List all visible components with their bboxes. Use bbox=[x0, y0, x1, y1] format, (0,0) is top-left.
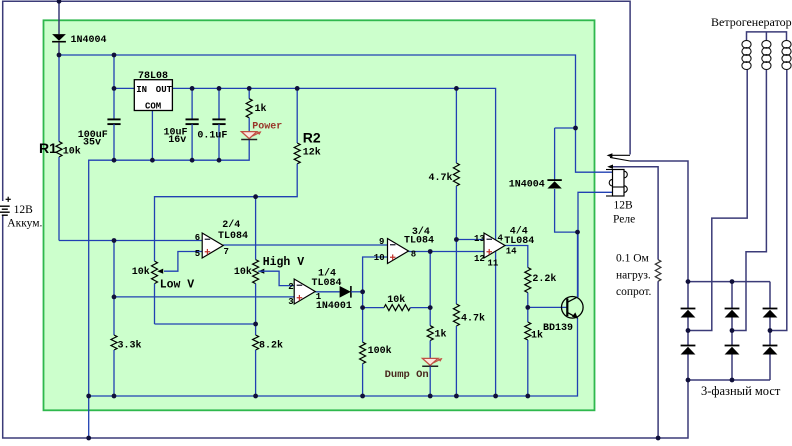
svg-text:2/4: 2/4 bbox=[222, 219, 240, 231]
svg-text:R1: R1 bbox=[39, 140, 57, 156]
svg-text:Реле: Реле bbox=[613, 214, 635, 226]
svg-text:Dump On: Dump On bbox=[385, 369, 429, 381]
svg-text:3: 3 bbox=[288, 297, 293, 307]
svg-text:12k: 12k bbox=[303, 147, 321, 159]
svg-text:12В: 12В bbox=[14, 204, 33, 216]
svg-text:TL084: TL084 bbox=[312, 278, 342, 289]
svg-text:10k: 10k bbox=[63, 145, 81, 157]
svg-text:11: 11 bbox=[488, 259, 499, 269]
svg-text:сопрот.: сопрот. bbox=[616, 286, 652, 298]
svg-text:16v: 16v bbox=[168, 135, 186, 146]
svg-text:9: 9 bbox=[379, 237, 384, 247]
svg-text:5: 5 bbox=[195, 249, 200, 259]
svg-text:7: 7 bbox=[224, 247, 229, 257]
svg-text:OUT: OUT bbox=[156, 85, 173, 95]
svg-text:1k: 1k bbox=[531, 330, 543, 342]
svg-text:10k: 10k bbox=[234, 266, 252, 278]
svg-text:2: 2 bbox=[288, 282, 293, 292]
svg-text:Power: Power bbox=[252, 122, 282, 133]
svg-text:10: 10 bbox=[374, 253, 385, 263]
svg-text:Аккум.: Аккум. bbox=[7, 217, 42, 229]
svg-text:13: 13 bbox=[474, 234, 485, 244]
svg-text:1N4001: 1N4001 bbox=[316, 301, 352, 312]
svg-text:0.1 Ом: 0.1 Ом bbox=[616, 253, 650, 265]
svg-text:3-фазный мост: 3-фазный мост bbox=[701, 384, 781, 398]
svg-text:35v: 35v bbox=[83, 137, 101, 148]
svg-text:4: 4 bbox=[498, 234, 504, 244]
svg-text:0.1uF: 0.1uF bbox=[197, 131, 227, 142]
svg-text:1N4004: 1N4004 bbox=[509, 179, 545, 190]
svg-text:78L08: 78L08 bbox=[138, 71, 168, 82]
svg-text:1k: 1k bbox=[435, 329, 447, 341]
svg-text:12: 12 bbox=[474, 254, 485, 264]
svg-text:12В: 12В bbox=[614, 200, 634, 212]
svg-text:4.7k: 4.7k bbox=[429, 172, 453, 184]
svg-text:Ветрогенератор: Ветрогенератор bbox=[711, 15, 792, 29]
svg-text:100k: 100k bbox=[368, 345, 392, 357]
svg-text:2.2k: 2.2k bbox=[532, 273, 556, 285]
svg-text:TL084: TL084 bbox=[404, 236, 434, 247]
svg-text:1k: 1k bbox=[255, 103, 267, 115]
svg-text:Low V: Low V bbox=[160, 279, 195, 292]
svg-text:BD139: BD139 bbox=[543, 323, 573, 334]
svg-text:14: 14 bbox=[506, 247, 517, 257]
svg-text:IN: IN bbox=[136, 85, 147, 95]
svg-text:нагруз.: нагруз. bbox=[616, 269, 651, 281]
svg-text:8: 8 bbox=[411, 250, 416, 260]
svg-text:10k: 10k bbox=[132, 266, 150, 278]
svg-text:High V: High V bbox=[263, 256, 305, 269]
svg-text:1N4004: 1N4004 bbox=[71, 35, 107, 46]
svg-text:8.2k: 8.2k bbox=[259, 340, 283, 352]
svg-text:TL084: TL084 bbox=[504, 236, 534, 247]
svg-text:4.7k: 4.7k bbox=[461, 312, 485, 324]
svg-text:R2: R2 bbox=[303, 129, 321, 145]
svg-text:3.3k: 3.3k bbox=[118, 340, 142, 352]
svg-text:COM: COM bbox=[145, 102, 161, 112]
svg-text:6: 6 bbox=[195, 233, 200, 243]
svg-text:TL084: TL084 bbox=[218, 231, 248, 242]
svg-text:10k: 10k bbox=[387, 294, 405, 306]
